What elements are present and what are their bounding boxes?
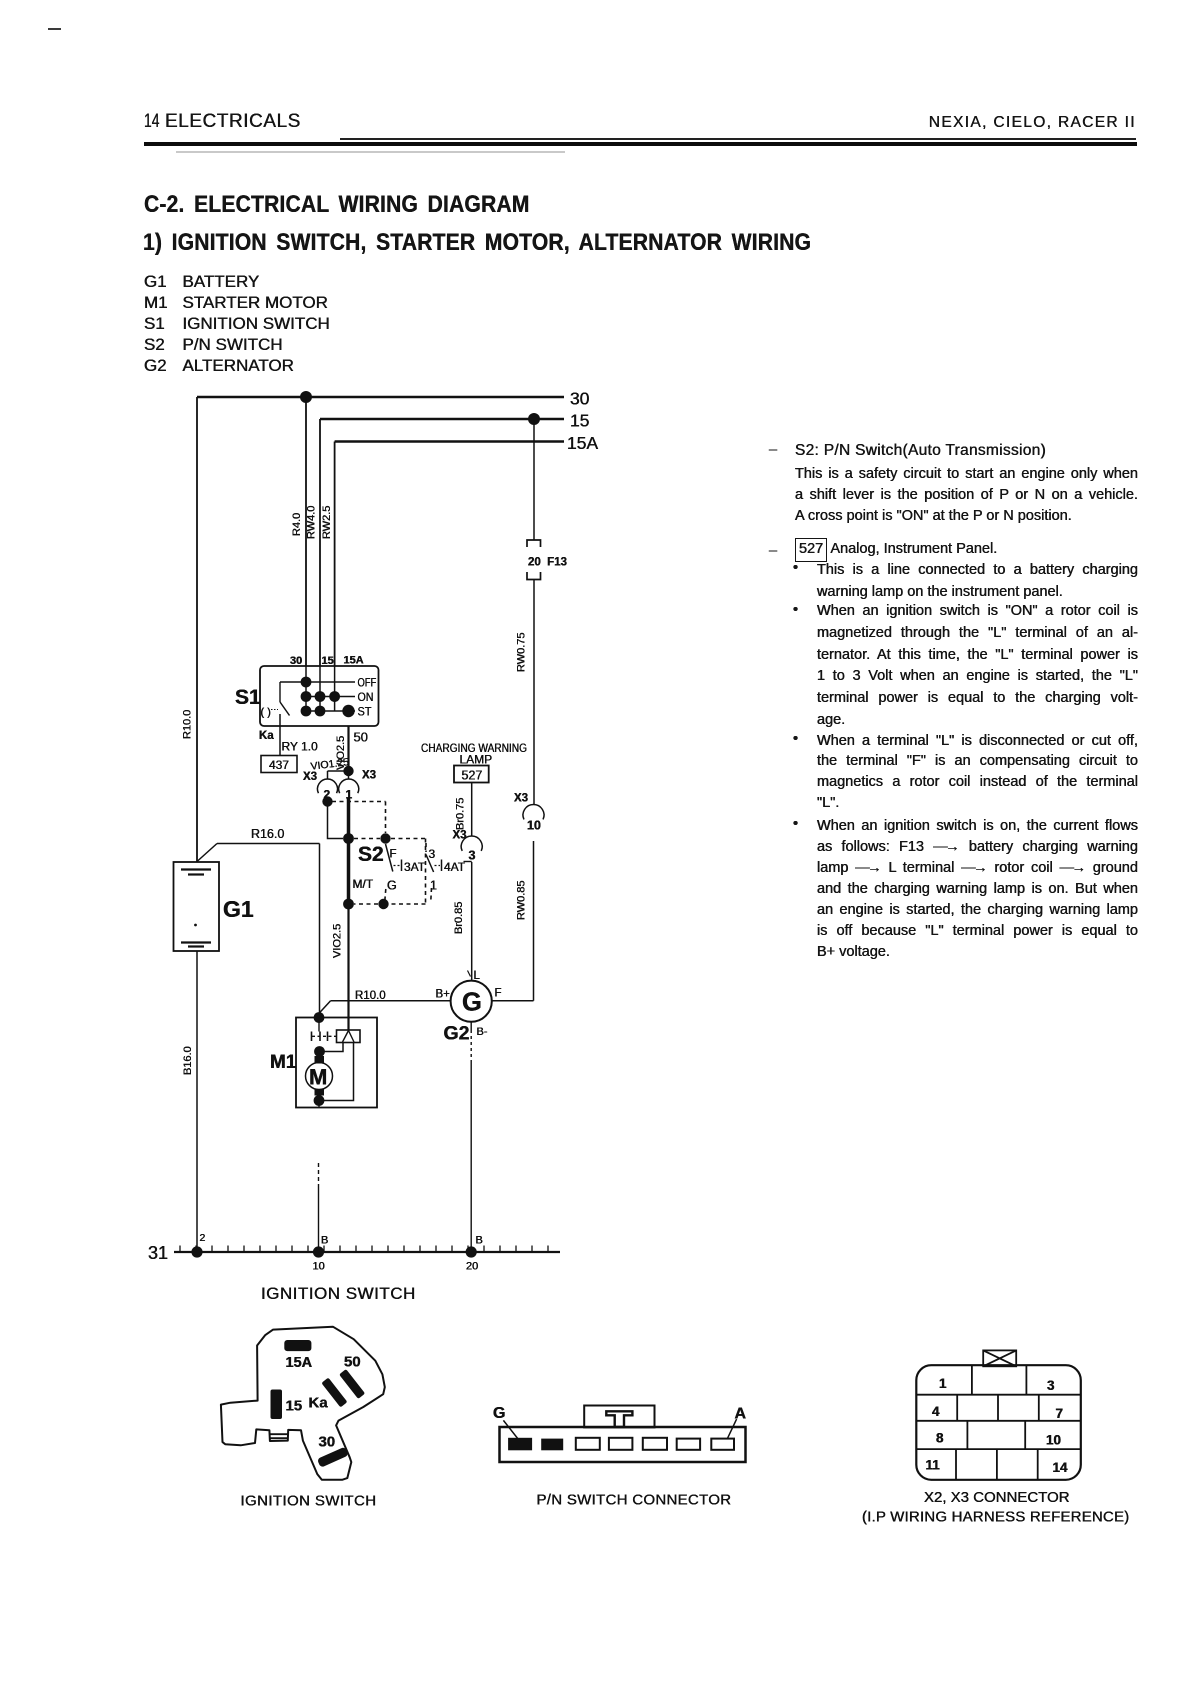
svg-text:M/T: M/T bbox=[353, 877, 374, 891]
motor M bbox=[306, 1063, 333, 1090]
svg-text:VIO2.5: VIO2.5 bbox=[332, 924, 344, 958]
svg-text:OFF: OFF bbox=[358, 676, 377, 690]
wire RW0.75 (fuse to connector X3-10) bbox=[516, 580, 535, 806]
svg-text:15: 15 bbox=[322, 655, 334, 667]
node S2 left bottom bbox=[343, 899, 354, 910]
svg-text:G: G bbox=[493, 1405, 505, 1422]
S1 OFF row bbox=[280, 676, 376, 690]
svg-text:( ): ( ) bbox=[261, 707, 271, 719]
S2 switch blade 3-1 bbox=[426, 847, 437, 893]
S1 Ka terminal wire bbox=[259, 714, 318, 756]
svg-text:R10.0: R10.0 bbox=[182, 710, 194, 739]
connector X3 pin 2 bbox=[303, 771, 338, 802]
P/N pin 3 bbox=[576, 1438, 600, 1450]
svg-text:S1: S1 bbox=[235, 686, 261, 709]
3AT contact bbox=[394, 860, 426, 875]
svg-text:L: L bbox=[474, 970, 481, 982]
svg-text:3: 3 bbox=[469, 849, 476, 863]
running header right bbox=[896, 114, 1136, 132]
svg-text:P/N SWITCH CONNECTOR: P/N SWITCH CONNECTOR bbox=[537, 1492, 732, 1509]
ignition switch rear view outline bbox=[221, 1327, 385, 1480]
X2X3 pin numbers bbox=[926, 1376, 1069, 1475]
connector X3 pin 3 bbox=[453, 830, 483, 863]
svg-text:1: 1 bbox=[430, 879, 437, 893]
svg-text:11: 11 bbox=[926, 1458, 941, 1473]
svg-text:15A: 15A bbox=[567, 433, 598, 453]
wire battery positive feed R10.0 (bus30 to G1) bbox=[182, 397, 198, 862]
svg-text:B16.0: B16.0 bbox=[182, 1046, 194, 1075]
header thin rule bbox=[340, 138, 1136, 140]
node below X3-2 bbox=[322, 796, 332, 806]
svg-text:30: 30 bbox=[290, 655, 302, 667]
wire coil to motor + bbox=[324, 1043, 343, 1052]
svg-text:15: 15 bbox=[286, 1398, 303, 1415]
svg-text:F: F bbox=[390, 849, 397, 861]
bus ticks bbox=[180, 1246, 548, 1253]
node 30 bus bbox=[197, 389, 590, 409]
running header left bbox=[144, 111, 159, 133]
X2 X3 connector body bbox=[916, 1365, 1081, 1480]
motor brush bottom bbox=[315, 1090, 325, 1096]
charging warning lamp label bbox=[421, 743, 527, 767]
svg-text:15: 15 bbox=[570, 411, 589, 431]
svg-text:X3: X3 bbox=[514, 793, 528, 805]
node 15A bus bbox=[335, 433, 599, 453]
node 15 bus bbox=[320, 411, 589, 431]
P/N pin G (filled) bbox=[508, 1438, 532, 1451]
svg-text:30: 30 bbox=[319, 1434, 336, 1451]
svg-text:527: 527 bbox=[462, 769, 483, 783]
svg-text:LAMP: LAMP bbox=[460, 753, 493, 767]
terminal pad 15 bbox=[271, 1390, 303, 1420]
node S2 G bottom bbox=[378, 899, 388, 909]
S1 pin 50 wire VIO2.5 bbox=[335, 726, 368, 770]
svg-text:X2, X3 CONNECTOR: X2, X3 CONNECTOR bbox=[924, 1489, 1070, 1506]
svg-text:3AT: 3AT bbox=[404, 860, 426, 874]
terminal pad 15A bbox=[284, 1340, 312, 1371]
relay box 437 bbox=[261, 756, 297, 773]
S1 internal column 15A bbox=[334, 666, 336, 711]
svg-text:20: 20 bbox=[466, 1261, 478, 1273]
svg-text:437: 437 bbox=[269, 758, 289, 772]
wire 4AT to X3-3 bbox=[464, 861, 472, 863]
wire B16.0 (battery negative to bus 31) bbox=[182, 951, 197, 1252]
component legend bbox=[144, 271, 330, 376]
sub heading bbox=[143, 229, 811, 257]
node motor - bbox=[314, 1095, 325, 1106]
node motor + bbox=[314, 1046, 325, 1057]
wire R4.0 (bus30 to S1 pin30) bbox=[291, 397, 306, 666]
svg-text:Br0.75: Br0.75 bbox=[455, 798, 467, 830]
S1 contact dots bbox=[301, 677, 355, 718]
svg-text:X3: X3 bbox=[362, 770, 376, 782]
wire M1 to ground bus bbox=[318, 1101, 321, 1253]
svg-text:3: 3 bbox=[1047, 1378, 1055, 1393]
P/N switch connector body bbox=[500, 1427, 746, 1462]
header faint rule bbox=[176, 151, 565, 153]
X2X3 row lines bbox=[916, 1395, 1081, 1449]
svg-text:Br0.85: Br0.85 bbox=[453, 902, 465, 934]
wire G2 B- to ground bus bbox=[470, 1022, 472, 1252]
wire 50 main (thick) bbox=[347, 798, 351, 904]
wire VIO2.5 to starter solenoid bbox=[332, 904, 349, 1030]
svg-text:RY 1.0: RY 1.0 bbox=[282, 740, 319, 754]
ground bus 31 bbox=[148, 1243, 560, 1263]
svg-text:(I.P WIRING HARNESS REFERENCE): (I.P WIRING HARNESS REFERENCE) bbox=[862, 1509, 1129, 1526]
header main rule bbox=[144, 142, 1137, 146]
P/N pin 2 (filled) bbox=[541, 1439, 563, 1451]
top-left margin dash bbox=[48, 28, 61, 30]
svg-text:10: 10 bbox=[1046, 1433, 1061, 1448]
svg-text:G2: G2 bbox=[444, 1023, 470, 1045]
svg-text:10: 10 bbox=[527, 819, 541, 833]
svg-text:IGNITION SWITCH: IGNITION SWITCH bbox=[261, 1284, 416, 1303]
svg-text:Ka: Ka bbox=[259, 730, 274, 742]
terminal L bbox=[468, 970, 481, 982]
P/N connector top tab bbox=[584, 1406, 654, 1428]
svg-text:50: 50 bbox=[344, 1354, 361, 1371]
P/N pin A (outline) bbox=[711, 1439, 734, 1450]
terminal pad 30 bbox=[317, 1434, 349, 1468]
S2 switch blade F-G bbox=[386, 844, 397, 893]
alternator G2 bbox=[444, 981, 492, 1045]
right explanatory column bbox=[769, 440, 777, 461]
svg-text:R16.0: R16.0 bbox=[251, 827, 284, 841]
svg-text:B+: B+ bbox=[436, 989, 451, 1001]
svg-text:4AT: 4AT bbox=[444, 860, 466, 874]
wire coil return bbox=[324, 1043, 354, 1101]
4AT contact bbox=[435, 860, 466, 875]
wire R10.0 (starter B to alternator B+) bbox=[319, 990, 450, 1013]
svg-text:RW0.85: RW0.85 bbox=[516, 880, 528, 920]
label A with leader bbox=[727, 1406, 746, 1439]
svg-text:M: M bbox=[309, 1065, 327, 1090]
svg-text:F: F bbox=[495, 988, 502, 1000]
node junction 50/X3 bbox=[343, 766, 353, 776]
M1 solenoid coil bbox=[337, 1030, 361, 1043]
svg-text:3: 3 bbox=[429, 847, 436, 861]
wire Br0.85 (X3-3 to G2 L) bbox=[453, 862, 472, 981]
svg-text:2: 2 bbox=[200, 1232, 206, 1244]
svg-text:G: G bbox=[387, 879, 397, 893]
S1 internal column 15 bbox=[319, 666, 321, 711]
section heading bbox=[144, 191, 530, 219]
fuse F13 20A bbox=[527, 540, 567, 580]
label G with leader bbox=[493, 1405, 518, 1439]
wire M/T jumper bbox=[328, 806, 344, 839]
svg-text:ST: ST bbox=[358, 705, 373, 719]
svg-text:50: 50 bbox=[354, 730, 368, 745]
svg-text:4: 4 bbox=[932, 1404, 940, 1419]
connector X3 pin 10 bbox=[514, 793, 544, 833]
wire R16.0 (battery to starter) bbox=[197, 827, 320, 1018]
wire bus15 to fuse F13 bbox=[533, 419, 535, 540]
svg-text:G: G bbox=[462, 989, 482, 1017]
key notch double lines bbox=[270, 1434, 288, 1438]
svg-text:RW4.0: RW4.0 bbox=[306, 506, 318, 539]
S1 internal column 30 bbox=[305, 666, 307, 711]
svg-text:RW2.5: RW2.5 bbox=[321, 506, 333, 539]
node S2 left top bbox=[343, 833, 354, 844]
svg-text:30: 30 bbox=[570, 389, 590, 409]
X2X3 cell dividers bbox=[956, 1365, 1039, 1480]
P/N pin 4 bbox=[609, 1438, 633, 1450]
node S2 F bbox=[380, 833, 390, 843]
wire stub to X3-1 bbox=[348, 771, 350, 779]
node bus pin 20/B bbox=[466, 1235, 483, 1273]
S1 ST row bbox=[306, 705, 372, 719]
M1 solenoid contact bbox=[312, 1022, 337, 1041]
svg-text:1: 1 bbox=[939, 1376, 947, 1391]
svg-text:B-: B- bbox=[477, 1026, 488, 1038]
junction on bus 30 bbox=[300, 391, 312, 403]
svg-text:R4.0: R4.0 bbox=[291, 513, 303, 536]
S1 ON row bbox=[306, 690, 374, 704]
svg-text:15A: 15A bbox=[286, 1355, 313, 1371]
svg-text:IGNITION SWITCH: IGNITION SWITCH bbox=[241, 1493, 377, 1510]
svg-text:RW0.75: RW0.75 bbox=[516, 632, 528, 672]
svg-text:R10.0: R10.0 bbox=[355, 990, 386, 1002]
P/N switch S2 dashed frame bbox=[332, 802, 432, 905]
svg-text:20 F13: 20 F13 bbox=[528, 557, 567, 569]
svg-text:14: 14 bbox=[1053, 1460, 1069, 1475]
svg-text:M1: M1 bbox=[270, 1052, 297, 1073]
svg-text:31: 31 bbox=[148, 1243, 168, 1263]
svg-text:S2: S2 bbox=[358, 843, 384, 866]
svg-text:B: B bbox=[476, 1235, 483, 1247]
wire RW2.5 (bus15A to S1 pin15A) bbox=[321, 442, 335, 667]
terminal pad 50 bbox=[321, 1354, 365, 1408]
lamp box 527 bbox=[454, 766, 489, 783]
node bus pin 2 bbox=[191, 1232, 205, 1258]
svg-text:B: B bbox=[321, 1235, 328, 1247]
svg-text:G1: G1 bbox=[223, 896, 254, 922]
svg-text:8: 8 bbox=[936, 1431, 944, 1446]
starter motor M1 bbox=[296, 1018, 377, 1108]
svg-text:ON: ON bbox=[358, 690, 374, 704]
motor brush top bbox=[315, 1056, 325, 1064]
node M1 B terminal bbox=[314, 1012, 325, 1023]
wire VIO1.25 branch to X3-2 bbox=[310, 756, 350, 778]
S1 rotor arm bbox=[261, 682, 290, 719]
P/N pin 5 bbox=[643, 1438, 667, 1450]
wire Br0.75 (527 to X3-3) bbox=[455, 783, 472, 837]
wire RW0.85 (connector X3-10 to G2 F terminal) bbox=[492, 841, 534, 1001]
svg-text:7: 7 bbox=[1056, 1406, 1064, 1421]
ignition switch S1 bbox=[260, 666, 379, 726]
svg-text:15A: 15A bbox=[344, 655, 364, 667]
battery G1 bbox=[174, 862, 254, 951]
node bus pin 10/B bbox=[313, 1235, 329, 1273]
P/N pin 6 bbox=[677, 1439, 700, 1450]
svg-text:10: 10 bbox=[313, 1261, 325, 1273]
svg-text:Ka: Ka bbox=[309, 1395, 329, 1412]
svg-text:X3: X3 bbox=[303, 771, 317, 783]
wire RW4.0 (bus15 to S1 pin15) bbox=[306, 419, 321, 666]
connector X3 pin 1 bbox=[339, 770, 376, 802]
P/N connector latch bbox=[606, 1411, 632, 1427]
junction on bus 15 bbox=[528, 413, 540, 425]
X2X3 latch with cross bbox=[983, 1350, 1016, 1366]
